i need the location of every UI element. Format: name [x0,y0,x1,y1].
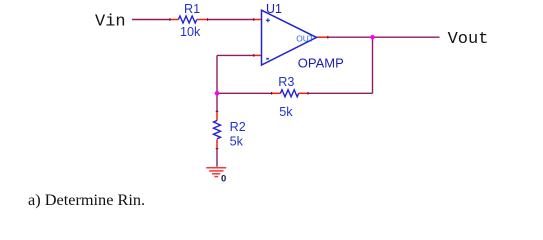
svg-text:5k: 5k [230,134,244,148]
svg-text:OUT: OUT [296,34,314,44]
svg-text:0: 0 [221,174,226,185]
svg-text:R2: R2 [230,120,246,134]
svg-text:a) Determine Rin.: a) Determine Rin. [28,190,145,209]
svg-text:R1: R1 [184,2,200,16]
svg-text:Vout: Vout [448,30,489,49]
svg-text:R3: R3 [278,75,294,89]
svg-text:Vin: Vin [95,13,126,32]
svg-text:OPAMP: OPAMP [298,56,344,71]
svg-text:10k: 10k [180,25,201,39]
svg-text:U1: U1 [266,2,282,16]
svg-text:5k: 5k [279,105,293,119]
